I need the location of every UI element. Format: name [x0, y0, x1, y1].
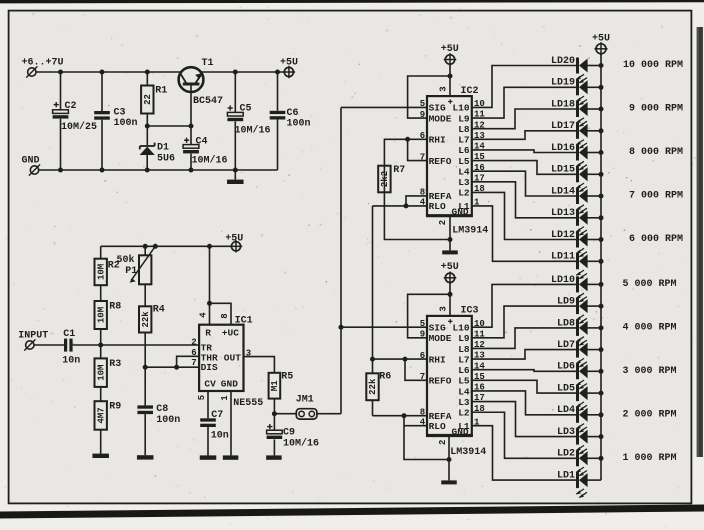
wire LD11 anode [587, 260, 601, 262]
svg-text:M1: M1 [270, 380, 280, 391]
svg-text:GND: GND [452, 426, 469, 437]
IC3 label L10 [452, 323, 469, 334]
terminal INPUT [18, 331, 48, 351]
node dot D1 bottom [145, 168, 150, 173]
IC2 label L10 [452, 103, 469, 114]
pin number 2 [191, 337, 196, 347]
svg-text:L7: L7 [458, 354, 470, 365]
wire IC2 L10 to LD [472, 66, 576, 108]
svg-text:10M/25: 10M/25 [61, 121, 97, 133]
IC3 plus mark [448, 319, 452, 323]
wire signal bus vertical [340, 107, 342, 413]
IC3 label L1 [458, 421, 470, 432]
wire R2-R8 link [100, 285, 102, 301]
IC2 label L2 [458, 188, 470, 199]
svg-text:+6..+7U: +6..+7U [22, 58, 64, 69]
wire IC2 REFO elbow [408, 139, 427, 160]
potentiometer P1 50k [117, 246, 156, 284]
svg-text:5U6: 5U6 [157, 154, 175, 165]
svg-text:22k: 22k [368, 378, 378, 395]
IC3 label L2 [458, 408, 470, 419]
wire LD20 anode [587, 65, 601, 67]
pin number 11 IC3 [474, 329, 485, 339]
wire IC3 MODE link [408, 294, 450, 338]
IC2 label GND [452, 207, 469, 218]
node dot IC2 GND [448, 237, 453, 242]
pin number 6 [191, 348, 196, 358]
wire LD14 anode [587, 195, 601, 197]
capacitor C6 100n [270, 108, 311, 130]
terminal +6..+7V [22, 58, 64, 78]
LED LD15 [551, 165, 588, 192]
IC3 label L9 [458, 333, 470, 344]
svg-text:10M/16: 10M/16 [283, 437, 319, 449]
wire IC2 REFA elbow [406, 196, 427, 206]
node dot C5 top [233, 70, 238, 75]
pin number 5 [197, 395, 207, 400]
wire R6 top lead [372, 359, 374, 373]
wire OUT net [244, 357, 275, 373]
svg-text:C1: C1 [63, 329, 75, 340]
svg-text:LD11: LD11 [551, 252, 575, 263]
IC3 label MODE [429, 333, 452, 344]
label 1 000 RPM [622, 453, 676, 464]
wire R7 top link [384, 139, 407, 192]
svg-text:L6: L6 [458, 145, 470, 156]
svg-text:R1: R1 [155, 86, 167, 97]
svg-text:100n: 100n [287, 119, 311, 130]
node dot LD11 rail [599, 259, 604, 264]
terminal +5V supply out [280, 58, 298, 79]
capacitor C4 10M/16 [183, 137, 227, 167]
svg-text:L4: L4 [458, 386, 470, 397]
IC1 label TR [201, 342, 213, 353]
wire C9 top lead [273, 414, 275, 431]
wire IC3 L2 to LD [472, 412, 576, 458]
svg-text:LD6: LD6 [557, 362, 575, 373]
svg-text:L2: L2 [458, 188, 470, 199]
capacitor C9 10M/16 [267, 424, 319, 449]
svg-text:+5U: +5U [441, 44, 459, 55]
pin number 18 IC3 [474, 404, 485, 414]
svg-text:C3: C3 [114, 108, 126, 119]
LED LD18 [551, 99, 588, 126]
node dot C3 top [100, 70, 105, 75]
pin number 13 IC2 [474, 131, 485, 141]
node dot C2 top [58, 70, 63, 75]
IC2 name label [461, 86, 479, 97]
svg-text:OUT: OUT [224, 352, 241, 363]
svg-text:REFO: REFO [429, 376, 452, 387]
node dot LD2 rail [599, 456, 604, 461]
IC2 label MODE [429, 113, 452, 124]
pin number 4 IC3 [420, 418, 426, 428]
svg-text:LM3914: LM3914 [450, 447, 486, 458]
svg-text:LD5: LD5 [557, 384, 575, 395]
svg-text:C9: C9 [283, 428, 295, 439]
wire IC3 L3 to LD [472, 402, 576, 437]
resistor R7 2k2 [378, 165, 405, 192]
wire pin5 stub [207, 391, 209, 418]
svg-text:2: 2 [438, 440, 448, 445]
svg-text:IC2: IC2 [461, 86, 479, 97]
node dot SIG branch IC3 [339, 325, 344, 330]
wire R4 bottom lead [144, 333, 146, 368]
svg-text:LD18: LD18 [551, 99, 575, 110]
svg-text:SIG: SIG [429, 323, 446, 334]
svg-text:LD4: LD4 [557, 405, 575, 416]
ground symbol IC1 gnd [223, 455, 239, 459]
svg-text:9: 9 [420, 330, 425, 340]
svg-text:L3: L3 [458, 177, 470, 188]
node dot LD18 rail [599, 107, 604, 112]
ground symbol supply [227, 170, 244, 184]
pin number 7 IC3 [420, 372, 425, 382]
IC3 label L8 [458, 344, 470, 355]
wire IC3 L6 to LD [472, 370, 576, 372]
wire IC2 L3 to LD [472, 182, 576, 218]
pin number 5 IC2 [420, 99, 425, 109]
IC1 label OUT [224, 352, 241, 363]
resistor R2 10M [95, 259, 120, 286]
svg-text:LD3: LD3 [557, 427, 575, 438]
IC2 label L1 [458, 201, 470, 212]
wire THR elbow [177, 356, 200, 367]
IC1 label DIS [201, 362, 218, 373]
wire R5 to JM1 [274, 413, 296, 415]
LED LD10 [551, 275, 588, 302]
node dot IC2 REFA-RLO [404, 203, 409, 208]
svg-text:3 000 RPM: 3 000 RPM [622, 366, 676, 377]
resistor R1 22 [141, 86, 167, 114]
IC3 label SIG [429, 323, 446, 334]
terminal +5V osc [225, 234, 243, 253]
wire C5 top lead [234, 72, 236, 112]
wire +5V rail right of T1 [201, 71, 284, 73]
wire LED +5V rail [600, 54, 602, 480]
node dot THR-DIS [174, 365, 179, 370]
svg-text:R: R [205, 328, 211, 339]
svg-text:100n: 100n [114, 118, 138, 129]
wire R9 bottom lead [100, 430, 102, 454]
node dot P1 wiper [153, 244, 158, 249]
pin number 1 IC2 [474, 198, 480, 208]
transistor T1 BC547 [179, 58, 223, 107]
svg-text:LD20: LD20 [551, 56, 575, 67]
svg-text:REFO: REFO [429, 156, 452, 167]
svg-text:C4: C4 [196, 137, 208, 148]
op-amp U IC3 LM3914 box [426, 316, 473, 436]
node dot LD4 rail [599, 412, 604, 417]
svg-text:50k: 50k [117, 254, 135, 266]
wire R8 bottom lead [100, 329, 102, 345]
svg-text:GND: GND [221, 378, 238, 389]
svg-text:10M: 10M [96, 365, 106, 381]
svg-text:4: 4 [198, 312, 208, 318]
pin number 8 IC3 [420, 408, 425, 418]
node dot C4 bottom [189, 168, 194, 173]
pin number 3 IC2 [439, 86, 449, 91]
svg-text:+5U: +5U [441, 262, 459, 273]
svg-text:10M: 10M [96, 307, 106, 323]
IC2 label L7 [458, 135, 470, 146]
pin number 12 IC2 [474, 120, 485, 130]
svg-text:L2: L2 [458, 408, 470, 419]
wire C2 bottom lead [60, 119, 62, 170]
ground symbol IC3 [441, 460, 457, 485]
wire IC2 GND stub [449, 216, 451, 240]
LED LD6 [557, 362, 588, 389]
IC1 label +UC [222, 328, 239, 339]
svg-text:LD14: LD14 [551, 186, 575, 197]
pin number 15 IC3 [474, 372, 485, 382]
svg-text:R6: R6 [379, 372, 391, 383]
node dot LD16 rail [599, 150, 604, 155]
svg-text:R4: R4 [153, 305, 165, 316]
label 10 000 RPM [623, 60, 683, 71]
svg-text:L8: L8 [458, 344, 470, 355]
node dot LD19 rail [599, 85, 604, 90]
label 5 000 RPM [622, 279, 676, 290]
label 8 000 RPM [629, 147, 683, 158]
wire IC3 L1 to LD [472, 426, 576, 480]
wire IC2 L9 to LD [472, 87, 576, 118]
svg-text:GND: GND [452, 207, 469, 218]
IC3 label L4 [458, 386, 470, 397]
resistor R5 M1 [269, 372, 294, 399]
pin number 13 IC3 [474, 351, 485, 361]
node dot LD14 rail [599, 194, 604, 199]
svg-text:R7: R7 [393, 165, 405, 176]
pin number 16 IC2 [474, 163, 485, 173]
pin number 2 IC2 [438, 220, 448, 225]
node dot C2 bottom [58, 168, 63, 173]
wire R5 bottom lead [273, 399, 275, 414]
svg-text:MODE: MODE [429, 333, 452, 344]
pin number 3 [246, 348, 251, 358]
IC3 label REFO [429, 376, 452, 387]
IC1 name label [235, 315, 253, 326]
capacitor C8 100n [137, 404, 180, 426]
svg-text:5: 5 [197, 395, 207, 400]
svg-text:LD17: LD17 [551, 121, 575, 132]
wire LD3 anode [587, 436, 601, 438]
wire R1 bottom lead [146, 114, 148, 127]
svg-text:L5: L5 [458, 376, 470, 387]
IC3 label L3 [458, 397, 470, 408]
svg-text:NE555: NE555 [233, 398, 263, 409]
wire IC3 L8 to LD [472, 328, 576, 349]
svg-text:2: 2 [438, 220, 448, 225]
svg-text:10 000 RPM: 10 000 RPM [623, 60, 683, 71]
pin number 10 IC3 [474, 319, 485, 329]
svg-text:GND: GND [22, 156, 40, 167]
wire IC3 RHI stub [405, 358, 427, 360]
IC3 label L5 [458, 376, 470, 387]
resistor R4 22k [139, 305, 165, 333]
capacitor C2 10M/25 [53, 101, 97, 133]
svg-text:7: 7 [191, 358, 196, 368]
ground symbol C9 [266, 455, 282, 459]
ground symbol C7 [200, 455, 217, 459]
svg-text:4 000 RPM: 4 000 RPM [622, 323, 676, 334]
capacitor C7 10n [200, 410, 229, 441]
wire IC2 RLO net [373, 205, 428, 207]
svg-text:4M7: 4M7 [96, 407, 106, 423]
svg-text:100n: 100n [156, 415, 180, 426]
svg-text:MODE: MODE [429, 113, 452, 124]
LED LD19 [551, 78, 588, 105]
wire IC2 L7 to LD [472, 131, 576, 139]
node dot IC2 mode split [448, 74, 453, 79]
node dot LD8 rail [599, 325, 604, 330]
LED LD16 [551, 143, 588, 170]
svg-text:L4: L4 [458, 166, 470, 177]
LED LD12 [551, 230, 588, 257]
node dot LD7 rail [599, 347, 604, 352]
LED LD17 [551, 121, 588, 148]
svg-text:RLO: RLO [429, 421, 446, 432]
wire LD2 anode [587, 457, 601, 459]
svg-text:10n: 10n [211, 430, 229, 441]
svg-text:C6: C6 [287, 108, 299, 119]
svg-text:L10: L10 [452, 103, 469, 114]
label 6 000 RPM [629, 234, 683, 245]
wire C2 top lead [60, 72, 62, 110]
IC2 label L8 [458, 124, 470, 135]
node dot LD13 rail [599, 215, 604, 220]
wire C3 bottom lead [101, 120, 103, 170]
wire LD9 anode [587, 305, 601, 307]
scan shadow right edge [697, 27, 703, 457]
wire pin1 gnd stub [230, 391, 232, 455]
IC2 label L3 [458, 177, 470, 188]
IC3 label REFA [429, 411, 452, 422]
LED LD3 [557, 427, 588, 454]
wire IC2 RHI stub [408, 138, 427, 140]
LED LD8 [557, 318, 588, 345]
pin number 7 [191, 358, 196, 368]
pin number 12 IC3 [474, 340, 485, 350]
node dot IC2 RHI [405, 137, 410, 142]
IC2 label L9 [458, 113, 470, 124]
pin number 17 IC3 [474, 393, 485, 403]
pin number 1 [220, 395, 230, 401]
node dot C6 top [275, 70, 280, 75]
node dot LD15 rail [599, 172, 604, 177]
wire C4 top lead [190, 126, 192, 145]
node dot LD10 rail [599, 282, 604, 287]
wire LD4 anode [587, 414, 601, 416]
wire input lead [34, 344, 64, 346]
node dot R4-DIS [143, 365, 148, 370]
wire IC2 L5 to LD [472, 161, 576, 175]
LED LD1 [557, 471, 588, 498]
label 7 000 RPM [629, 191, 683, 202]
wire LD8 anode [587, 327, 601, 329]
node dot IC3 REFA [402, 413, 407, 418]
node dot pin4-8 split [207, 301, 212, 306]
wire C9 bottom lead [273, 439, 275, 455]
svg-text:+5U: +5U [225, 234, 243, 245]
wire C8 top lead [144, 367, 146, 405]
pin number 8 [220, 313, 230, 318]
capacitor C3 100n [94, 108, 137, 130]
svg-text:R9: R9 [109, 402, 121, 413]
pin number 4 IC2 [420, 198, 426, 208]
resistor R3 10M [95, 345, 122, 387]
IC3 label RHI [429, 354, 446, 365]
svg-text:6: 6 [191, 348, 196, 358]
pin number 3 IC3 [439, 306, 449, 311]
wire LD13 anode [587, 217, 601, 219]
svg-text:5 000 RPM: 5 000 RPM [622, 279, 676, 290]
IC2 value label LM3914 [452, 226, 488, 237]
IC3 label L6 [458, 365, 470, 376]
wire IC3 L5 to LD [472, 380, 576, 393]
node dot IC3 RHI [403, 357, 408, 362]
svg-text:LM3914: LM3914 [452, 226, 488, 237]
svg-text:1: 1 [220, 395, 230, 401]
node dot LD17 rail [599, 128, 604, 133]
pin number 6 IC2 [420, 131, 425, 141]
svg-text:CV: CV [204, 378, 216, 389]
wire C3 top lead [101, 72, 103, 111]
LED LD5 [557, 384, 588, 411]
wire IC2 MODE link [408, 76, 450, 118]
wire IC3 L4 to LD [472, 391, 576, 415]
label 2 000 RPM [622, 409, 676, 420]
wire LD16 anode [587, 152, 601, 154]
wire +6V rail left [36, 71, 181, 73]
wire IC2 +5V lead [449, 64, 451, 96]
wire IC2 gnd-R7 link [384, 192, 450, 239]
svg-text:2k2: 2k2 [380, 171, 390, 187]
svg-text:22k: 22k [141, 311, 151, 328]
svg-text:P1: P1 [125, 266, 137, 277]
node dot LD20 rail [599, 63, 604, 68]
wire IC2 L4 to LD [472, 171, 576, 196]
pin number 18 IC2 [474, 184, 485, 194]
IC1 label THR [201, 352, 218, 363]
IC2 label REFO [429, 156, 452, 167]
svg-text:L6: L6 [458, 365, 470, 376]
node dot LD3 rail [599, 434, 604, 439]
wire IC2 L8 to LD [472, 109, 576, 129]
wire TR net [73, 344, 200, 346]
LED LD2 [557, 449, 588, 476]
wire IC3 +5V lead [449, 283, 451, 316]
wire IC3 GND stub [448, 436, 450, 460]
node dot IC1 supply drop [207, 244, 212, 249]
node dot base-C4 [189, 124, 194, 129]
IC2 label REFA [429, 191, 452, 202]
wire C6 top lead [277, 72, 279, 111]
svg-text:IC1: IC1 [235, 315, 253, 326]
svg-text:C8: C8 [156, 404, 168, 415]
LED LD9 [557, 297, 588, 324]
node dot LD12 rail [599, 237, 604, 242]
IC1 label CV [204, 378, 216, 389]
wire LD6 anode [587, 370, 601, 372]
pin number 4 [198, 312, 208, 318]
svg-text:10M: 10M [96, 264, 106, 280]
ground symbol R9 [92, 454, 109, 458]
capacitor C5 10M/16 [227, 104, 270, 137]
svg-text:SIG: SIG [429, 103, 446, 114]
node dot divider [98, 343, 103, 348]
diode D1 zener 5V6 [140, 143, 175, 171]
